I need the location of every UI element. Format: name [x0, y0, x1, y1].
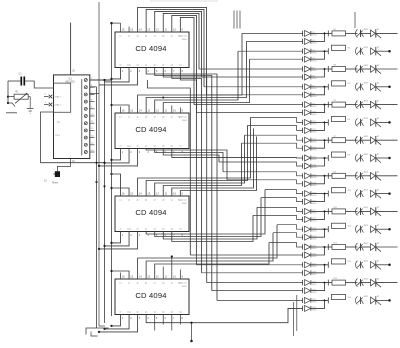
triac T5 channel 5 [371, 101, 376, 108]
svg-text:vss: vss [179, 65, 182, 67]
svg-text:4N25: 4N25 [364, 225, 369, 227]
IC1 supply pin top [70, 23, 72, 75]
svg-text:MOC: MOC [312, 43, 317, 45]
wire U5 top pin 13 up to channel [146, 233, 273, 279]
IC1 pin symbol row 3 [84, 93, 87, 96]
trimmer R1 body [14, 94, 28, 99]
optocoupler OK15 channel 15 [356, 279, 358, 287]
svg-text:R14: R14 [348, 261, 351, 263]
opto-LED D23 channel 12 upper [305, 226, 311, 232]
svg-text:R7: R7 [334, 136, 336, 138]
IC1 pin symbol row 6 [84, 115, 87, 118]
optocoupler OK12 channel 12 [356, 225, 358, 233]
svg-text:MOC: MOC [312, 70, 317, 72]
svg-text:MOC: MOC [312, 149, 317, 151]
wire capacitor right lead to IC1 [25, 81, 53, 88]
triac T6 channel 6 [371, 119, 376, 126]
wire capacitor left lead [8, 80, 20, 82]
resistor R10 channel 10 [332, 188, 346, 193]
pushbutton S1 body [55, 171, 60, 177]
IC1 ground pin bottom [70, 159, 72, 163]
wire bus bottom hook 2 [99, 325, 105, 327]
IC1 pin symbol row 8 [84, 129, 87, 132]
cascade bracket U4 clock [99, 232, 138, 249]
svg-text:MOC: MOC [312, 114, 317, 116]
crystal pin X2 mark [49, 103, 53, 107]
optocoupler OK7 channel 7 [356, 136, 358, 144]
opto-LED D3 channel 2 upper [305, 48, 311, 54]
wire U3 top pin 12 up to channel [155, 51, 238, 113]
svg-text:qs: qs [171, 199, 173, 201]
wire short segment bottom left [6, 112, 17, 114]
svg-text:XTAL2: XTAL2 [55, 96, 62, 99]
U2 pin numbers top [122, 28, 184, 32]
resistor R2 channel 2 [332, 45, 346, 50]
faint scan line top edge [150, 0, 218, 2]
optocoupler OK3 channel 3 [355, 65, 357, 73]
output wire channel 13 [376, 246, 398, 248]
triac T8 channel 8 [371, 155, 376, 162]
U2 internal pin name labels top row [119, 35, 187, 41]
junction dot on clock bus [95, 181, 97, 183]
svg-text:R12: R12 [348, 226, 351, 228]
svg-text:MOC: MOC [312, 106, 317, 108]
junction bar channel 2 [327, 48, 329, 54]
wire U4 top pin 13 up to channel [146, 125, 247, 196]
opto-LED D8 channel 4 lower [305, 92, 311, 98]
wire U2 bottom pin 5 to channel [155, 68, 212, 291]
wire U4 bottom pin 4 to channel [146, 190, 265, 234]
output wire channel 10 [376, 193, 389, 195]
triac T1 channel 1 [371, 30, 376, 37]
cascade bracket U2 strobe [112, 68, 121, 79]
svg-text:clk: clk [136, 146, 138, 148]
optocoupler OK16 channel 16 [356, 296, 358, 304]
wire joining outputs channel 14 [311, 265, 329, 273]
wire U2 bottom pin 4 to channel [146, 68, 217, 301]
output wire channel 5 [376, 104, 398, 106]
opto-LED D19 channel 10 upper [305, 191, 311, 197]
wire U3 top pin 11 up to channel [163, 59, 249, 113]
opto-LED D13 channel 7 upper [305, 137, 311, 143]
wire U3 top pin 10 stub [171, 106, 173, 114]
opto-LED D25 channel 13 upper [305, 244, 311, 250]
opto-LED D15 channel 8 upper [305, 155, 311, 161]
triac T9 channel 9 [371, 173, 376, 180]
junction bar channel 6 [327, 119, 329, 125]
wire U4 top pin 10 jog [172, 128, 254, 196]
svg-text:Serial out: Serial out [178, 199, 187, 202]
IC1 pin symbol row 11 [84, 151, 87, 154]
svg-text:clk: clk [136, 312, 138, 314]
triac T11 channel 11 [371, 208, 376, 215]
ground stub under trimmer [27, 97, 34, 114]
output wire channel 3 [376, 68, 398, 70]
cascade bracket U5 data [105, 315, 130, 329]
svg-text:MOC: MOC [312, 221, 317, 223]
svg-text:R1: R1 [334, 29, 336, 31]
svg-text:4N25: 4N25 [364, 136, 369, 138]
svg-text:4N25: 4N25 [364, 207, 369, 209]
output wire channel 6 [376, 121, 389, 123]
svg-text:str: str [119, 311, 122, 314]
opto-LED D24 channel 12 lower [305, 234, 311, 240]
U4 pin numbers bottom [122, 233, 184, 237]
svg-text:MOC: MOC [312, 141, 317, 143]
svg-text:clk: clk [136, 229, 138, 231]
wire joining outputs channel 3 [311, 69, 329, 77]
output wire channel 2 [376, 50, 389, 52]
opto-LED D26 channel 13 lower [305, 252, 311, 258]
svg-text:MOC: MOC [312, 266, 317, 268]
svg-text:4N25: 4N25 [364, 172, 369, 174]
junction bar channel 15 [327, 280, 329, 286]
opto-LED D9 channel 5 upper [305, 102, 311, 108]
wire trimmer lower lead [8, 103, 15, 107]
output wire channel 12 [376, 228, 389, 230]
wire joining outputs channel 10 [311, 194, 329, 202]
svg-text:R2: R2 [348, 48, 350, 50]
U4 internal pin name labels top row [119, 199, 187, 205]
triac T14 channel 14 [371, 262, 376, 269]
wire joining outputs channel 7 [311, 140, 329, 148]
opto-LED D32 channel 16 lower [305, 305, 311, 311]
junction bar channel 5 [327, 102, 329, 108]
cascade bracket U2 data [105, 68, 130, 82]
IC U2 CD 4094 shift register body [115, 32, 189, 68]
resistor R6 channel 6 [332, 116, 346, 121]
opto-LED D20 channel 10 lower [305, 199, 311, 205]
svg-text:4N25: 4N25 [364, 118, 369, 120]
IC1 pin symbol row 7 [84, 122, 87, 125]
optocoupler OK9 channel 9 [356, 172, 358, 180]
U4 internal pin name labels bottom row [119, 228, 181, 231]
svg-text:qs: qs [171, 282, 173, 284]
U5 internal pin name labels top row [119, 282, 187, 288]
wire U5 top pin 11 stub [162, 267, 164, 280]
optocoupler OK4 channel 4 [356, 83, 358, 91]
svg-text:R9: R9 [334, 171, 336, 173]
optocoupler OK13 channel 13 [356, 243, 358, 251]
wire U4 pin 16 riser to bus [112, 174, 121, 196]
output wire channel 7 [376, 139, 398, 141]
svg-text:4N25: 4N25 [364, 154, 369, 156]
svg-text:R6: R6 [348, 119, 350, 121]
vertical bus line data [98, 2, 100, 326]
svg-text:4N25: 4N25 [364, 29, 369, 31]
junction bar channel 16 [327, 297, 329, 303]
svg-text:vcc: vcc [119, 35, 122, 37]
wire bus bottom hook 3 [91, 332, 98, 337]
U3 pin numbers bottom [122, 150, 184, 154]
IC1 pin symbol row 1 [84, 79, 87, 82]
opto-LED D1 channel 1 upper [305, 30, 311, 36]
wire joining outputs channel 5 [311, 105, 329, 113]
optocoupler OK8 channel 8 [356, 154, 358, 162]
svg-text:MOC: MOC [312, 213, 317, 215]
wire pushbutton to ground line [57, 163, 70, 172]
wire U4 bottom pin 6 to channel [163, 207, 257, 239]
svg-text:4N25: 4N25 [364, 100, 369, 102]
resistor R15 channel 15 [328, 282, 332, 284]
output wire channel 14 [376, 264, 389, 266]
wire IC1 strobe line long route to channel 13 [147, 80, 190, 255]
junction dot on strobe bus [103, 185, 105, 187]
U5 internal pin name labels bottom row [119, 311, 181, 314]
svg-text:P3.0: P3.0 [56, 135, 61, 137]
IC U5 CD 4094 shift register body [115, 279, 189, 315]
wire U2 top pin 10 over top to channel [172, 15, 197, 112]
svg-text:MOC: MOC [312, 292, 317, 294]
svg-text:R15: R15 [334, 278, 337, 280]
triac T12 channel 12 [371, 226, 376, 233]
vertical bus line strobe [104, 80, 106, 323]
wire U5 top pin 14 up to channel [138, 225, 277, 279]
opto-LED D4 channel 2 lower [305, 56, 311, 62]
resistor R1 channel 1 [328, 32, 332, 34]
wire U4 bottom pin 7 to channel [172, 215, 253, 241]
IC1 port column separator [81, 79, 83, 156]
output wire channel 16 [376, 299, 389, 301]
junction bar channel 8 [327, 155, 329, 161]
svg-text:MOC: MOC [312, 310, 317, 312]
wire U5 pin 16 stub [120, 273, 122, 280]
svg-text:str: str [119, 228, 122, 231]
IC1 oscillator sub-block [54, 83, 71, 112]
wire IC1 pin1 to strobe bus [90, 79, 112, 81]
resistor R3 channel 3 [328, 68, 332, 70]
U4 pin numbers top [122, 192, 184, 196]
opto-LED D16 channel 8 lower [305, 163, 311, 169]
triac T3 channel 3 [371, 66, 376, 73]
triac T13 channel 13 [371, 244, 376, 251]
svg-text:str: str [119, 64, 122, 67]
IC U4 CD 4094 shift register body [115, 196, 189, 232]
U5 pin numbers top [122, 275, 184, 279]
resistor R4 channel 4 [332, 81, 346, 86]
svg-text:4N25: 4N25 [364, 243, 369, 245]
resistor R8 channel 8 [332, 152, 346, 157]
svg-text:Serial out: Serial out [178, 35, 187, 38]
resistor R11 channel 11 [328, 210, 332, 212]
svg-text:MOC: MOC [312, 256, 317, 258]
wire joining outputs channel 2 [311, 51, 329, 59]
wire U2 top pin 13 over top to channel [146, 9, 204, 86]
vertical bus line enable [111, 23, 113, 316]
svg-text:MOC: MOC [312, 230, 317, 232]
U3 internal pin name labels top row [119, 116, 187, 122]
opto-LED D31 channel 16 upper [305, 297, 311, 303]
svg-text:MOC: MOC [312, 195, 317, 197]
output wire channel 8 [376, 157, 389, 159]
opto-LED D17 channel 9 upper [305, 173, 311, 179]
wire U4 top pin 11 up to channel [163, 143, 241, 196]
decorative short bus verticals top middle [233, 11, 235, 29]
opto-LED D10 channel 5 lower [305, 110, 311, 116]
opto-LED D27 channel 14 upper [305, 262, 311, 268]
wire supply rail left [7, 81, 9, 103]
svg-text:MOC: MOC [312, 185, 317, 187]
cascade bracket U3 strobe [112, 149, 121, 160]
cascade bracket U4 data [105, 232, 130, 246]
svg-text:MOC: MOC [312, 159, 317, 161]
junction bar channel 14 [327, 262, 329, 268]
junction bar channel 1 [327, 30, 329, 36]
cascade bracket U4 strobe [112, 232, 121, 243]
wire joining outputs channel 6 [311, 122, 329, 130]
opto-LED D14 channel 7 lower [305, 145, 311, 151]
cascade bracket U5 clock [99, 315, 138, 332]
optocoupler OK11 channel 11 [356, 207, 358, 215]
optocoupler OK1 channel 1 [355, 29, 357, 37]
wire joining outputs channel 13 [311, 247, 329, 255]
triac T10 channel 10 [371, 190, 376, 197]
wire U2 bottom pin 8 to channel [180, 68, 196, 265]
resistor R12 channel 12 [332, 223, 346, 228]
resistor R9 channel 9 [328, 175, 332, 177]
svg-text:R3: R3 [334, 65, 336, 67]
crystal pin X1 mark [49, 95, 53, 99]
svg-text:R4: R4 [348, 83, 350, 85]
svg-text:MOC: MOC [312, 132, 317, 134]
svg-text:vcc: vcc [119, 282, 122, 284]
wire IC1 pin3 to data bus [90, 93, 99, 95]
svg-text:CD 4094: CD 4094 [135, 208, 166, 217]
IC U3 CD 4094 shift register body [115, 113, 189, 149]
wire U3 top pin 14 up to channel [138, 33, 242, 113]
cascade bracket U2 clock [99, 68, 138, 85]
output wire channel 11 [376, 210, 398, 212]
wire U5 bottom pin stubs [154, 315, 156, 331]
wire U2 top pin 9 over top to channel [180, 17, 194, 104]
wire joining outputs channel 16 [311, 300, 329, 308]
wire U4 top pin 9 jog [180, 136, 256, 196]
IC1 pin symbol row 2 [84, 86, 87, 89]
svg-text:Serial out: Serial out [178, 116, 187, 119]
junction bar channel 7 [327, 137, 329, 143]
svg-text:4N25: 4N25 [364, 65, 369, 67]
junction bar channel 10 [327, 191, 329, 197]
svg-text:CD 4094: CD 4094 [135, 291, 166, 300]
capacitor C1 plates [20, 77, 22, 86]
svg-text:vcc: vcc [119, 199, 122, 201]
wire bus top to U2 pin 16 [112, 22, 121, 24]
wire joining outputs channel 15 [311, 283, 329, 291]
IC1 pin symbol row 10 [84, 143, 87, 146]
wire U2 top pin 14 over top to channel [138, 7, 207, 94]
IC1 pin symbol row 9 [84, 136, 87, 139]
wire joining outputs channel 4 [311, 87, 329, 95]
wire rail to trimmer [8, 96, 14, 98]
opto-LED D28 channel 14 lower [305, 270, 311, 276]
wire bus to U5 pin 15 enable [112, 271, 130, 279]
wire U4 top pin 12 up to channel [155, 135, 245, 196]
wire bus to U4 pin 15 enable [112, 188, 130, 196]
junction bar channel 12 [327, 226, 329, 232]
svg-text:MOC: MOC [312, 248, 317, 250]
opto-LED D2 channel 1 lower [305, 38, 311, 44]
svg-text:R11: R11 [334, 207, 337, 209]
cascade bracket U3 clock [99, 149, 138, 166]
U2 internal pin name labels bottom row [119, 64, 181, 67]
opto-LED D11 channel 6 upper [305, 119, 311, 125]
wire U4 top pin 14 up to channel [138, 117, 251, 196]
svg-text:MOC: MOC [312, 96, 317, 98]
cascade bracket U5 strobe [112, 315, 121, 326]
U3 internal pin name labels bottom row [119, 145, 181, 148]
IC1 pin symbol row 5 [84, 107, 87, 110]
svg-text:clk: clk [136, 65, 138, 67]
svg-text:MOC: MOC [312, 284, 317, 286]
wire U2 bottom pin 7 to channel [172, 68, 202, 273]
opto-LED D18 channel 9 lower [305, 181, 311, 187]
junction bar channel 11 [327, 208, 329, 214]
wire U3 bottom pin 7 to channel [172, 149, 303, 159]
triac T16 channel 16 [371, 297, 376, 304]
svg-text:R5: R5 [334, 100, 336, 102]
wire U2 bottom pin 6 to channel [163, 68, 206, 283]
wire U5 top pin 12 up to channel [155, 243, 269, 280]
svg-text:R10: R10 [348, 190, 351, 192]
svg-text:4N25: 4N25 [364, 47, 369, 49]
crystal pin stubs [44, 96, 49, 98]
wire U2 pin15 stub [128, 27, 130, 33]
opto-LED D29 channel 15 upper [305, 280, 311, 286]
output wire channel 15 [376, 282, 398, 284]
svg-text:MOC: MOC [312, 124, 317, 126]
opto-LED D12 channel 6 lower [305, 127, 311, 133]
svg-text:MOC: MOC [312, 203, 317, 205]
junction bar channel 9 [327, 173, 329, 179]
svg-text:4N25: 4N25 [364, 261, 369, 263]
resistor R7 channel 7 [328, 139, 332, 141]
svg-text:MOC: MOC [312, 35, 317, 37]
optocoupler OK14 channel 14 [356, 261, 358, 269]
svg-text:Reset: Reset [52, 182, 58, 185]
cascade bracket U3 data [105, 149, 130, 163]
svg-text:4N25: 4N25 [364, 189, 369, 191]
opto-LED D6 channel 3 lower [305, 74, 311, 80]
svg-text:R16: R16 [348, 297, 351, 299]
opto-LED D21 channel 11 upper [305, 208, 311, 214]
svg-text:MOC: MOC [312, 177, 317, 179]
wire IC1 pin2 to clock bus [90, 86, 97, 88]
IC1 pin symbol row 4 [84, 100, 87, 103]
wire joining outputs channel 12 [311, 229, 329, 237]
svg-text:4N25: 4N25 [364, 296, 369, 298]
wire joining outputs channel 8 [311, 158, 329, 166]
svg-text:vss: vss [179, 229, 182, 231]
svg-text:R13: R13 [334, 243, 337, 245]
svg-text:vss: vss [179, 146, 182, 148]
svg-text:MOC: MOC [312, 302, 317, 304]
trimmer R1 wiper arrow [15, 93, 27, 103]
resistor R16 channel 16 [332, 294, 346, 299]
wire bus to U3 pin 15 enable [112, 105, 130, 113]
wire U3 bottom pin 4 to channel [146, 149, 227, 180]
optocoupler OK6 channel 6 [356, 118, 358, 126]
wire joining outputs channel 11 [311, 211, 329, 219]
triac T7 channel 7 [371, 137, 376, 144]
svg-text:MOC: MOC [312, 88, 317, 90]
svg-text:MOC: MOC [312, 60, 317, 62]
svg-text:XTAL1: XTAL1 [55, 104, 62, 107]
resistor R13 channel 13 [328, 246, 332, 248]
short verticals near channel 15-16 entries [293, 302, 295, 336]
wire U3 top pin 9 stub [179, 108, 181, 114]
svg-text:CD 4094: CD 4094 [135, 44, 166, 53]
svg-text:Serial out: Serial out [178, 282, 187, 285]
